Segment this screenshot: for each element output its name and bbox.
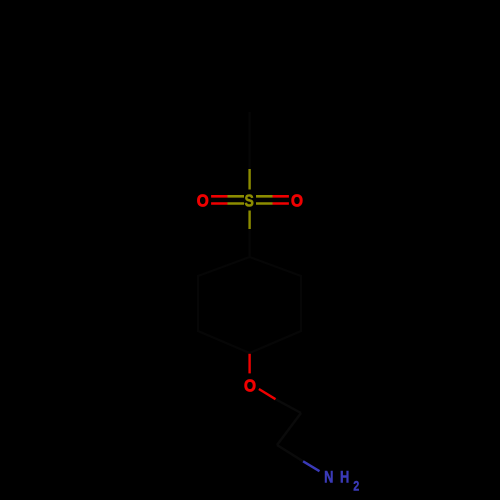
wire: faint C1 half of O-C1 bond	[276, 399, 302, 413]
atom label O right (S=O)	[291, 192, 303, 211]
atom label O left (S=O)	[197, 192, 209, 211]
bond C(ring)-O: red half above ether O	[248, 354, 250, 374]
atom label S (sulfonyl sulfur)	[245, 192, 254, 211]
bond S-C: olive half below S	[248, 211, 250, 230]
bond O-C1: red half diagonal	[259, 389, 276, 399]
wire: faint C-C skeleton, methyl carbon down to bond midpoint above S	[249, 112, 251, 169]
wire: faint lower half of S-C(ring) bond	[249, 229, 251, 258]
bond C2-N: blue half diagonal	[303, 461, 319, 471]
atom label H of NH2	[340, 469, 349, 487]
svg-text:S: S	[245, 192, 254, 211]
svg-text:O: O	[197, 192, 209, 211]
bond CH3-S: olive half above S	[248, 169, 250, 190]
subscript 2 of NH2	[353, 478, 359, 493]
svg-text:N: N	[324, 469, 333, 487]
atom label O ether	[244, 377, 256, 396]
wire: faint C1-C2 bond	[277, 413, 301, 445]
svg-text:2: 2	[353, 478, 359, 493]
svg-text:H: H	[340, 469, 349, 487]
wire: faint C2 half of C2-N bond	[277, 445, 303, 461]
double bond S=O left	[211, 196, 244, 203]
svg-text:O: O	[244, 377, 256, 396]
benzene ring (faint carbon hexagon)	[198, 257, 301, 353]
atom label N of NH2	[324, 469, 333, 487]
svg-text:O: O	[291, 192, 303, 211]
double bond S=O right	[256, 196, 289, 203]
